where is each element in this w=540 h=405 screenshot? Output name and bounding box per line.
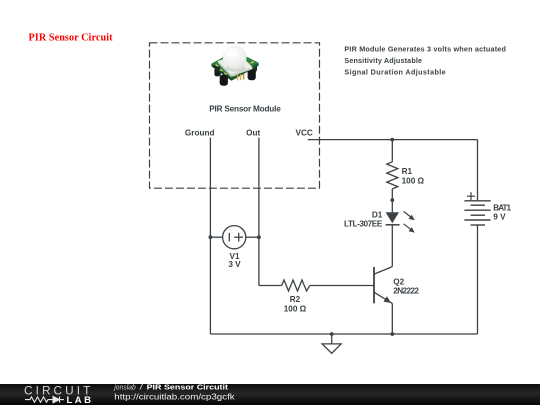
svg-text:PIR Sensor Module: PIR Sensor Module — [209, 104, 281, 113]
svg-text:100 Ω: 100 Ω — [402, 177, 425, 186]
dashed module boundary box — [150, 43, 320, 188]
voltage source V1 — [210, 226, 259, 249]
fresnel dome — [223, 45, 247, 69]
wire: right vertical down to battery top — [477, 140, 479, 201]
svg-text:BAT1: BAT1 — [493, 203, 511, 212]
svg-text:9 V: 9 V — [493, 212, 506, 221]
svg-text:LTL-307EE: LTL-307EE — [344, 220, 383, 229]
svg-text:Signal Duration Adjustable: Signal Duration Adjustable — [344, 67, 445, 76]
svg-text:Q2: Q2 — [393, 277, 404, 286]
junction: ground on rail — [330, 332, 334, 336]
battery BAT1 — [464, 192, 490, 225]
header pins — [237, 75, 238, 81]
front foot — [220, 75, 228, 86]
PIR sensor module photo — [212, 45, 259, 85]
wire: bottom rail — [210, 333, 477, 335]
junction: V1 left — [209, 235, 213, 239]
green PCB top — [212, 51, 259, 78]
resistor R2 — [259, 280, 374, 291]
rear feet — [214, 68, 220, 77]
wire: Out pin down to R2 row — [258, 138, 260, 286]
svg-text:Out: Out — [246, 128, 260, 137]
junction: emitter on rail — [390, 332, 394, 336]
dark component left edge — [213, 64, 220, 70]
svg-text:Ground: Ground — [185, 128, 215, 137]
svg-text:100 Ω: 100 Ω — [284, 305, 307, 314]
plus sign — [234, 236, 243, 238]
svg-text:http://circuitlab.com/cp3gcfk: http://circuitlab.com/cp3gcfk — [114, 392, 236, 401]
svg-text:3 V: 3 V — [228, 260, 241, 269]
svg-text:D1: D1 — [372, 210, 383, 219]
svg-text:PIR Module Generates 3 volts w: PIR Module Generates 3 volts when actuat… — [344, 45, 506, 54]
dome shadow on base — [226, 65, 246, 72]
junction: R1/D1 — [390, 198, 394, 202]
svg-text:jonslab / PIR Sensor Circutit: jonslab / PIR Sensor Circutit — [113, 383, 228, 392]
plus sign of battery — [467, 195, 475, 197]
logo resistor-diode glyph — [25, 397, 64, 403]
white lens base — [218, 54, 253, 75]
gold pads — [215, 64, 218, 67]
svg-text:2N2222: 2N2222 — [393, 286, 419, 295]
ground symbol — [322, 334, 341, 353]
transistor Q2 — [374, 267, 392, 334]
svg-text:VCC: VCC — [296, 128, 313, 137]
resistor R1 — [387, 140, 398, 201]
junction: VCC/R1 — [390, 138, 394, 142]
svg-text:Sensitivity Adjustable: Sensitivity Adjustable — [344, 56, 422, 65]
svg-text:R1: R1 — [402, 167, 413, 176]
footer bar — [0, 384, 540, 405]
junction: V1 right — [257, 235, 261, 239]
emitter arrowhead — [384, 296, 391, 303]
wire: Ground pin down to bottom rail — [209, 138, 211, 334]
wire: VCC horizontal to right side — [308, 139, 478, 141]
PCB thickness edges — [212, 64, 232, 81]
svg-text:R2: R2 — [290, 295, 301, 304]
minus bar — [228, 233, 230, 241]
LED arrows — [404, 211, 411, 217]
LED D1 — [386, 200, 415, 233]
svg-text:LAB: LAB — [67, 395, 92, 405]
wire: LED cathode to collector — [391, 225, 393, 267]
svg-text:PIR Sensor Circuit: PIR Sensor Circuit — [29, 33, 114, 44]
wire: battery bottom down to rail — [477, 225, 479, 334]
